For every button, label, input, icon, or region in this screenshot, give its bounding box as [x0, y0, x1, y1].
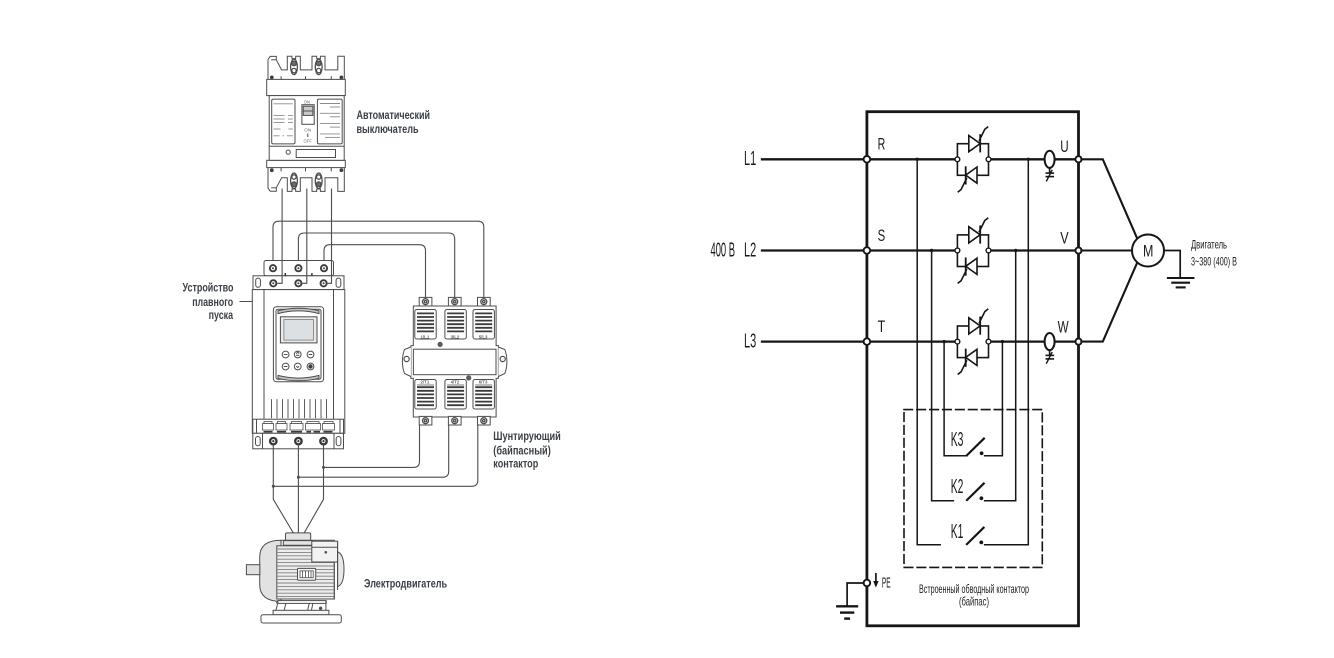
circuit breaker lower band — [267, 160, 346, 167]
contact blade K2 — [967, 484, 984, 500]
svg-text:K3: K3 — [951, 429, 964, 451]
bottom screw lugs — [419, 416, 490, 425]
circuit breaker main face — [269, 96, 344, 161]
wire L2 input — [762, 249, 864, 251]
thyristor pair U3 (phase T) — [955, 309, 991, 374]
wire U to motor — [1081, 159, 1137, 238]
circuit breaker bottom terminal comb — [268, 167, 344, 191]
wire PE to ground — [847, 583, 864, 606]
wire starter out 3 to contactor bottom 1 — [324, 425, 420, 468]
bypass tap wire K3 left (from T) — [944, 342, 967, 456]
wire phase S-V inside box — [870, 249, 957, 251]
thyristor pair U2 (phase S) — [955, 218, 991, 283]
breaker screw under face — [286, 150, 290, 154]
ribbed core — [277, 546, 335, 599]
node U — [1075, 156, 1081, 162]
svg-text:Шунтирующий: Шунтирующий — [493, 429, 561, 443]
bypass tap wire K2 left (from S) — [932, 251, 954, 501]
bypass tap wire K2 right (to V) — [985, 251, 1016, 501]
svg-text:6/T3: 6/T3 — [479, 380, 488, 385]
bypass tap wire K1 right (to U) — [985, 159, 1029, 545]
svg-text:(байпас): (байпас) — [959, 595, 989, 609]
svg-text:Устройство: Устройство — [183, 280, 234, 294]
node V — [1075, 247, 1081, 253]
bypass tap wire K1 left (from R) — [917, 159, 940, 545]
contact blade K1 — [967, 528, 984, 544]
current transformer TA1 on phase U — [1045, 151, 1055, 181]
svg-text:L1: L1 — [744, 148, 756, 170]
wire starter out 1 to contactor bottom 3 — [273, 425, 478, 487]
svg-text:3/L2: 3/L2 — [451, 335, 460, 340]
svg-text:S: S — [878, 226, 886, 245]
bypass contactor KM — [402, 297, 507, 417]
breaker rating panel right — [317, 99, 342, 144]
svg-text:OFF: OFF — [304, 139, 313, 144]
svg-text:U: U — [1060, 137, 1068, 156]
svg-text:5/L3: 5/L3 — [479, 335, 488, 340]
svg-text:ON: ON — [304, 100, 310, 105]
svg-text:L3: L3 — [744, 331, 756, 353]
starter heatsink fins — [272, 399, 327, 418]
terminal T — [864, 338, 871, 345]
shaft — [246, 565, 259, 575]
ground (PE) — [837, 605, 857, 607]
starter buttons row 2 — [282, 363, 289, 370]
electric motor — [246, 533, 344, 623]
circuit breaker QF top terminal comb — [268, 56, 344, 80]
soft starter bottom terminal block — [253, 433, 344, 449]
svg-text:W: W — [1058, 318, 1069, 337]
svg-text:1/L1: 1/L1 — [421, 335, 430, 340]
svg-text:V: V — [1060, 228, 1069, 247]
PE arrow — [875, 574, 877, 582]
wire breaker to starter phase 2 — [302, 189, 306, 284]
contact blade K3 — [967, 439, 984, 455]
wire motor to ground — [1164, 251, 1180, 277]
svg-text:4/T2: 4/T2 — [451, 380, 460, 385]
top right box — [312, 541, 338, 562]
wire phase T-W inside box — [870, 340, 957, 342]
terminal box — [286, 533, 311, 542]
wire starter out 1 to motor — [273, 444, 293, 533]
svg-text:T: T — [878, 317, 886, 336]
svg-text:Автоматический: Автоматический — [357, 108, 431, 122]
wire starter to contactor top 2 — [298, 233, 454, 298]
contactor body — [411, 306, 499, 417]
current transformer TA2 on phase W — [1045, 333, 1055, 363]
svg-text:M: M — [1143, 242, 1153, 261]
right wing — [498, 347, 507, 377]
junction dots — [322, 466, 325, 469]
starter control terminal strip — [253, 419, 344, 433]
ground (motor) — [1168, 277, 1194, 279]
nameplate — [298, 568, 316, 580]
bypass tap wire K3 right (to W) — [985, 342, 1003, 456]
soft starter top terminal block lower — [253, 276, 344, 290]
terminal S — [864, 247, 871, 254]
starter control panel — [273, 307, 323, 382]
contactor pole fins top — [415, 310, 436, 340]
wire starter to contactor top 3 — [324, 245, 426, 298]
svg-text:3~380 (400) В: 3~380 (400) В — [1191, 255, 1237, 269]
body left cap — [260, 540, 281, 601]
junction dots phase lines — [916, 158, 919, 161]
svg-text:K1: K1 — [951, 521, 964, 543]
svg-text:Электродвигатель: Электродвигатель — [364, 577, 447, 591]
wire phase R-U inside box — [870, 158, 957, 160]
soft starter top terminal block upper — [264, 261, 334, 276]
svg-text:ON: ON — [304, 128, 311, 133]
svg-text:контактор: контактор — [493, 456, 538, 470]
breaker label plate — [296, 150, 335, 158]
wire V to motor — [1081, 249, 1132, 251]
terminal R — [864, 156, 871, 163]
wire starter to contactor top 1 — [273, 221, 484, 298]
thyristor pair U1 (phase R) — [955, 127, 991, 192]
starter buttons row 1 — [282, 351, 314, 370]
motor M — [1132, 235, 1164, 267]
left wing — [402, 347, 411, 377]
middle band — [413, 349, 496, 375]
wire starter out 3 to motor — [304, 444, 323, 533]
soft starter enclosure box — [867, 112, 1079, 626]
svg-text:400 В: 400 В — [711, 239, 736, 261]
right band — [338, 552, 344, 587]
svg-text:пуска: пуска — [209, 308, 234, 322]
svg-text:L2: L2 — [744, 239, 756, 261]
label pointer line — [240, 301, 253, 303]
feet — [278, 601, 326, 604]
bypass contactor dashed box — [904, 410, 1042, 568]
svg-text:K2: K2 — [951, 476, 964, 498]
starter output terminals — [270, 438, 327, 444]
wire starter out 2 to contactor bottom 2 — [298, 425, 448, 478]
wire L1 input — [762, 158, 864, 160]
starter input terminals row 1 — [270, 265, 327, 286]
wire starter out 2 to motor — [297, 444, 299, 533]
node W — [1075, 339, 1081, 345]
wire W to motor — [1081, 262, 1137, 341]
soft starter body — [252, 290, 344, 434]
wire L3 input — [762, 340, 864, 342]
starter screen — [280, 317, 317, 343]
wire breaker to starter phase 1 — [277, 189, 282, 284]
top screw lugs — [419, 297, 490, 306]
body outline — [281, 540, 334, 599]
svg-text:PE: PE — [882, 574, 891, 591]
terminal PE — [864, 580, 871, 587]
svg-text:Двигатель: Двигатель — [1191, 238, 1227, 252]
circuit breaker upper band — [267, 79, 346, 95]
svg-text:2/T1: 2/T1 — [421, 380, 430, 385]
base — [273, 610, 329, 615]
wire breaker to starter phase 3 — [328, 189, 332, 284]
svg-text:выключатель: выключатель — [357, 122, 419, 136]
svg-text:R: R — [878, 135, 886, 154]
breaker rating panel left — [272, 99, 295, 144]
